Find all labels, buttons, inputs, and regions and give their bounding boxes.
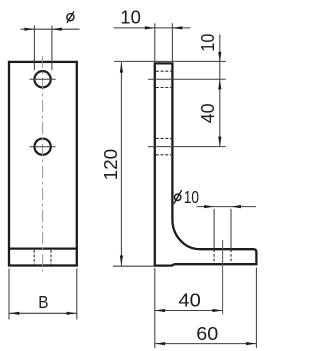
front view flange edge line <box>9 247 77 249</box>
top 10 dim arrows <box>145 26 155 29</box>
hidden hole 2 edges (side view) <box>156 138 171 154</box>
svg-text:10: 10 <box>120 7 141 27</box>
B dim extension lines <box>9 269 77 320</box>
hidden hole edges in flange (front view) <box>34 250 51 264</box>
flange hole vertical centerline / ext to 40 dim <box>222 240 224 315</box>
diameter symbol label <box>67 14 74 21</box>
bottom dims extension lines <box>155 268 257 349</box>
hole 2 centerline (side view, also ext line) <box>148 146 226 148</box>
hole 2 horizontal centerline <box>30 146 56 148</box>
hidden hole 1 edges (side view) <box>156 71 171 87</box>
right dim arrows <box>218 52 221 62</box>
side view outline <box>155 63 257 265</box>
vertical centerline (front view) <box>42 56 44 272</box>
bottom 40 arrows <box>155 309 165 312</box>
120 dim arrows <box>120 63 123 73</box>
B dim arrows <box>9 312 19 315</box>
bottom 60 dim line <box>155 343 257 345</box>
hole 1 centerline (side view, also ext line) <box>148 78 226 80</box>
diameter dim line <box>21 28 80 30</box>
svg-text:10: 10 <box>184 187 199 207</box>
top 10 dim line <box>114 27 191 29</box>
top 10 dim extension lines <box>155 23 173 62</box>
120 dim extension lines <box>113 61 226 266</box>
svg-text:40: 40 <box>178 289 200 310</box>
dia 10 dim arrows <box>204 205 214 208</box>
bottom 60 arrows <box>155 342 165 345</box>
bottom 40 dim line <box>155 310 223 312</box>
svg-text:B: B <box>38 292 48 312</box>
flange hole hidden edges (dashed inside flange) <box>214 250 231 265</box>
svg-text:120: 120 <box>101 149 121 181</box>
hole 2 (front view) <box>34 139 50 155</box>
svg-text:10: 10 <box>198 34 218 52</box>
svg-text:40: 40 <box>198 104 218 124</box>
hole 1 horizontal centerline <box>30 78 56 80</box>
front view outline <box>9 62 77 266</box>
hole 1 (front view) <box>34 71 50 87</box>
dia 10 dim line <box>197 206 257 208</box>
diameter dim arrows <box>24 28 34 31</box>
diameter dim extension lines <box>34 26 52 71</box>
120 dim line <box>120 62 122 265</box>
svg-text:60: 60 <box>196 323 218 344</box>
label dia 10 <box>175 194 181 200</box>
right 10/40 dim line <box>219 35 221 147</box>
B dim line <box>9 312 77 314</box>
flange hole extension lines (solid above flange) <box>214 209 231 249</box>
